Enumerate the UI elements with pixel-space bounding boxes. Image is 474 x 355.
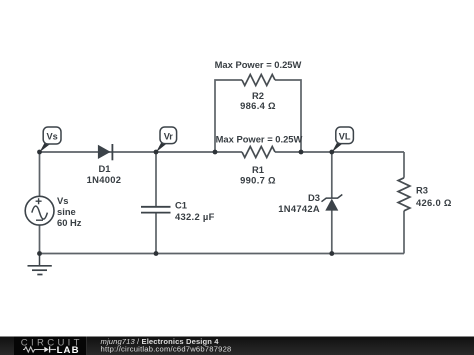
wire top rail right (R1 zigzag to R3 top corner) (275, 151, 404, 153)
svg-text:1N4742A: 1N4742A (278, 203, 320, 214)
node VL flag (332, 127, 354, 152)
diode D1 (87, 144, 122, 185)
svg-text:LAB: LAB (57, 345, 80, 355)
svg-text:990.7 Ω: 990.7 Ω (240, 175, 276, 186)
wire D3 zener branch (331, 152, 333, 254)
wire R3 branch verticals (403, 152, 405, 254)
junction dot R1/R2 right (299, 150, 304, 155)
svg-text:Max Power = 0.25W: Max Power = 0.25W (215, 59, 302, 70)
svg-text:432.2 µF: 432.2 µF (175, 211, 215, 222)
voltage source Vs (25, 195, 82, 228)
svg-text:Vs: Vs (46, 132, 57, 142)
node VL junction dot (329, 150, 334, 155)
ground (28, 254, 52, 275)
node Vr flag (156, 127, 177, 152)
capacitor C1 (141, 199, 215, 222)
junction dot ground rail left (37, 251, 42, 256)
footer bar (0, 337, 474, 355)
resistor R3 (398, 178, 410, 211)
svg-text:D3: D3 (308, 192, 320, 203)
svg-text:R3: R3 (416, 184, 428, 195)
resistor R1 (242, 147, 275, 158)
wire Vs source branch (39, 152, 41, 254)
svg-text:sine: sine (57, 206, 76, 217)
svg-text:1N4002: 1N4002 (87, 174, 122, 185)
node Vs junction dot (37, 150, 42, 155)
wire C1 branch (155, 152, 157, 254)
svg-text:http://circuitlab.com/c6d7w6b7: http://circuitlab.com/c6d7w6b787928 (101, 344, 232, 353)
svg-text:986.4 Ω: 986.4 Ω (240, 100, 276, 111)
svg-text:D1: D1 (99, 163, 111, 174)
svg-text:Vs: Vs (57, 195, 68, 206)
wire R2 branch left vertical (215, 80, 242, 152)
resistor R2 (242, 75, 275, 86)
svg-text:VL: VL (339, 131, 351, 141)
svg-text:60 Hz: 60 Hz (57, 217, 82, 228)
node Vs flag (40, 127, 62, 152)
node Vr junction dot (154, 150, 159, 155)
wire top rail left (Vs node to R1 zigzag) (40, 151, 242, 153)
CircuitLab logo (21, 337, 83, 355)
wire R2 branch right vertical (275, 80, 301, 152)
svg-text:426.0 Ω: 426.0 Ω (416, 197, 452, 208)
junction dot C1 bottom (154, 251, 159, 256)
wire bottom rail (40, 253, 405, 255)
logo badge background (14, 337, 86, 355)
svg-text:Max Power = 0.25W: Max Power = 0.25W (216, 133, 303, 144)
svg-text:C1: C1 (175, 199, 187, 210)
junction dot D3 bottom (329, 251, 334, 256)
junction dot R1/R2 left (213, 150, 218, 155)
zener diode D3 (278, 192, 342, 214)
svg-text:Vr: Vr (164, 131, 174, 141)
